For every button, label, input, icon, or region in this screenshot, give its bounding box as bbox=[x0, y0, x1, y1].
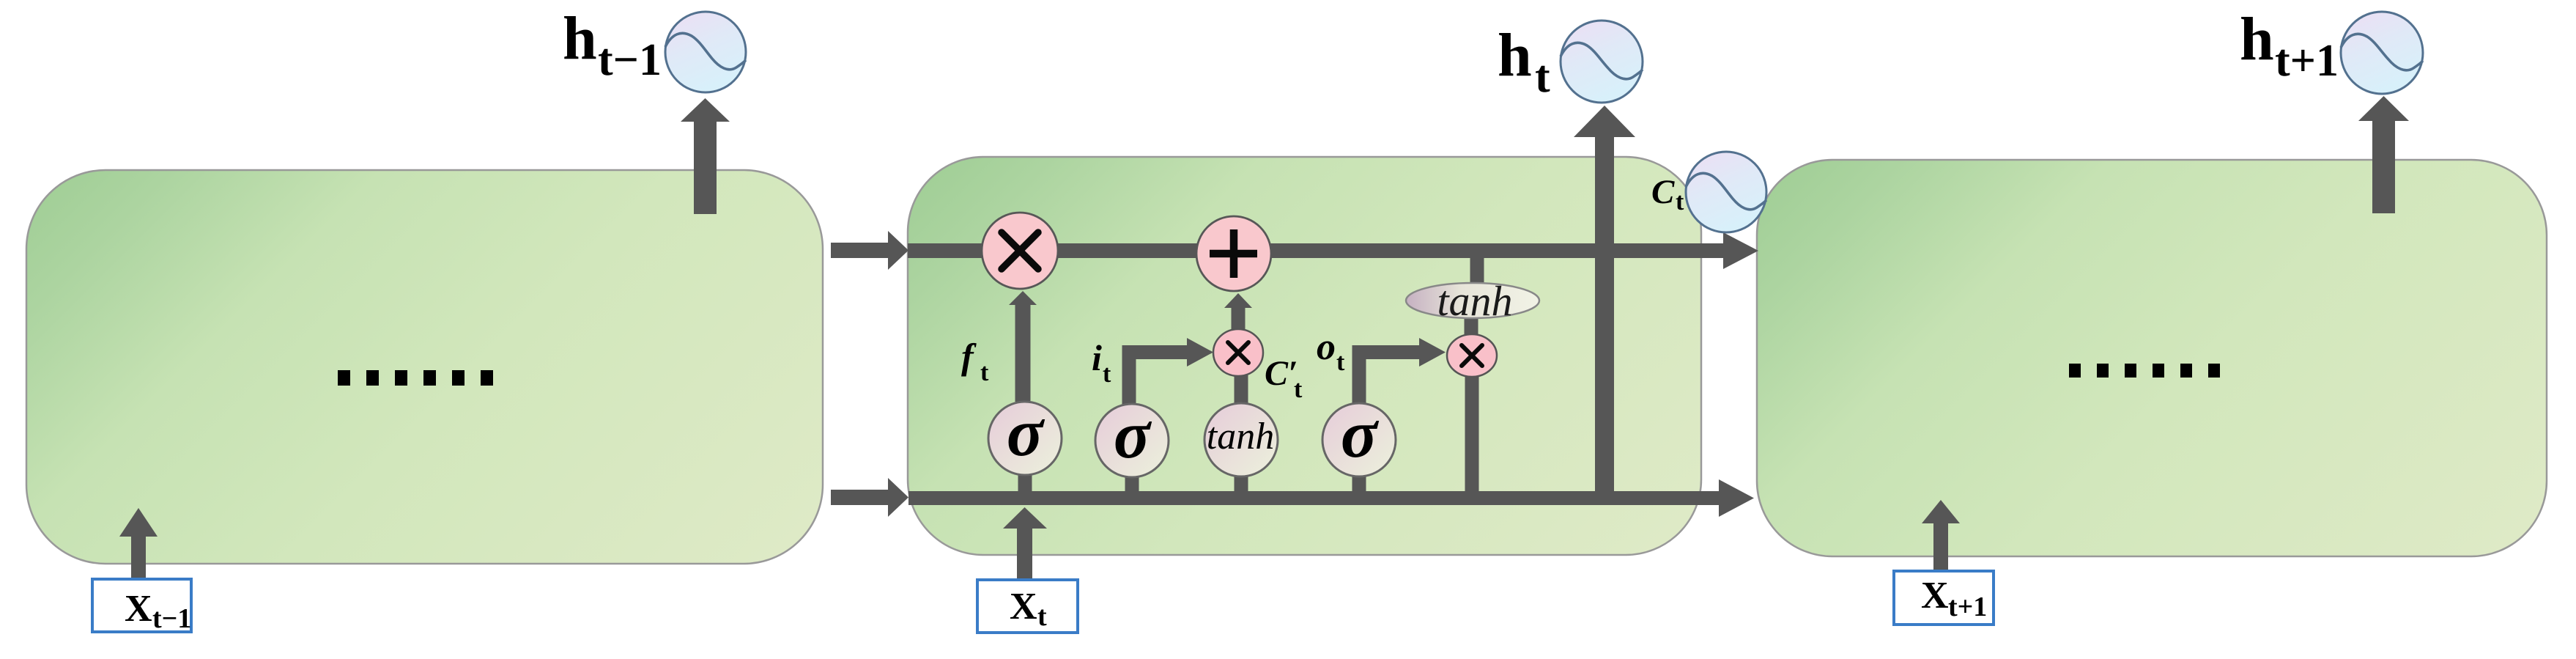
svg-text:t: t bbox=[1294, 376, 1303, 403]
sigma gate 2 (input) bbox=[1095, 404, 1169, 477]
output arrow h_t+1 bbox=[2372, 121, 2395, 213]
svg-text:h: h bbox=[1498, 21, 1532, 89]
sigma gate 1 (forget) bbox=[988, 402, 1062, 475]
plus node (cell state) bbox=[1196, 216, 1271, 291]
input box X_t-1 bbox=[92, 579, 191, 632]
ellipsis dots right cell bbox=[2069, 364, 2220, 378]
wire: h_t vertical line bbox=[1595, 137, 1614, 505]
wire: tanh gate to multiply1 stub bbox=[1235, 374, 1248, 405]
svg-text:C′: C′ bbox=[1265, 354, 1298, 393]
svg-text:tanh: tanh bbox=[1207, 416, 1274, 457]
svg-text:t: t bbox=[980, 359, 989, 386]
wire: top line to tanh ellipse stub bbox=[1470, 257, 1484, 284]
svg-text:t: t bbox=[1676, 188, 1684, 216]
wire: sigma2 to bottom line stub bbox=[1125, 473, 1139, 505]
wire: forget gate vertical f_t bbox=[1015, 305, 1031, 402]
ellipsis dots left cell bbox=[338, 370, 493, 386]
wave icon h_t+1 bbox=[2341, 12, 2423, 94]
wire: multiply1 to plus arrow bbox=[1232, 308, 1246, 330]
wave icon h_t-1 bbox=[665, 12, 746, 92]
wave icon h_t bbox=[1561, 21, 1643, 103]
multiply1 node (input gate product) bbox=[1213, 329, 1263, 376]
svg-text:t−1: t−1 bbox=[598, 35, 662, 85]
svg-text:t+1: t+1 bbox=[1948, 592, 1987, 622]
svg-text:o: o bbox=[1317, 326, 1336, 368]
cell t+1 box bbox=[1757, 160, 2547, 556]
arrowhead: hidden state into cell t+1 bbox=[1719, 479, 1754, 517]
input arrow X_t+1 bbox=[1933, 523, 1948, 571]
arrowhead: cell state into cell t+1 bbox=[1723, 232, 1758, 269]
sigma gate 3 (output) bbox=[1322, 403, 1396, 476]
svg-text:σ: σ bbox=[1007, 395, 1045, 471]
output arrow h_t-1 bbox=[694, 120, 717, 214]
svg-text:t: t bbox=[1037, 601, 1047, 632]
svg-text:t+1: t+1 bbox=[2275, 36, 2339, 86]
tanh ellipse (cell state activation) bbox=[1406, 283, 1539, 318]
wire: cell-state top line across cell t bbox=[908, 243, 1723, 258]
wire: output gate elbow o_t bbox=[1352, 345, 1366, 405]
cell t box bbox=[908, 157, 1701, 555]
svg-text:X: X bbox=[1010, 586, 1037, 627]
svg-text:t: t bbox=[1535, 52, 1550, 102]
wave icon C_t bbox=[1686, 152, 1766, 232]
svg-text:σ: σ bbox=[1114, 397, 1152, 473]
input arrow X_t bbox=[1017, 528, 1032, 578]
wire: tanh gate to bottom line stub bbox=[1235, 473, 1248, 505]
svg-text:σ: σ bbox=[1341, 397, 1380, 472]
wire: bottom hidden-state line across cell t bbox=[908, 491, 1719, 505]
svg-text:i: i bbox=[1092, 337, 1102, 378]
cell t-1 box bbox=[26, 170, 823, 564]
wire: sigma3 to bottom line stub bbox=[1352, 473, 1366, 505]
wire: tanh ellipse to multiply2 stub bbox=[1465, 317, 1478, 336]
arrowhead: h_t output arrow bbox=[1574, 106, 1635, 137]
svg-text:t−1: t−1 bbox=[152, 603, 191, 634]
input box X_t+1 bbox=[1894, 571, 1994, 625]
svg-text:h: h bbox=[563, 4, 597, 73]
wire: cell-state line into cell t (arrow from cell t-1) bbox=[831, 243, 888, 258]
svg-text:X: X bbox=[1921, 575, 1949, 616]
wire: input gate elbow i_t bbox=[1122, 345, 1136, 405]
multiply2 node (output gate product) bbox=[1447, 334, 1497, 377]
input arrow X_t-1 bbox=[131, 536, 146, 579]
tanh gate circle bbox=[1204, 403, 1278, 476]
wire: lower state line into cell t (arrow from cell t-1) bbox=[831, 490, 888, 505]
svg-text:tanh: tanh bbox=[1437, 277, 1512, 325]
svg-text:t: t bbox=[1336, 349, 1345, 376]
svg-text:C: C bbox=[1651, 173, 1675, 211]
svg-text:X: X bbox=[125, 588, 152, 630]
svg-text:t: t bbox=[1103, 361, 1111, 388]
input box X_t bbox=[977, 580, 1078, 633]
svg-text:h: h bbox=[2240, 5, 2274, 73]
wire: sigma1 to bottom line stub bbox=[1018, 473, 1032, 505]
wire: multiply2 down to bottom line bbox=[1465, 374, 1479, 495]
multiply node (cell state) bbox=[982, 213, 1058, 289]
